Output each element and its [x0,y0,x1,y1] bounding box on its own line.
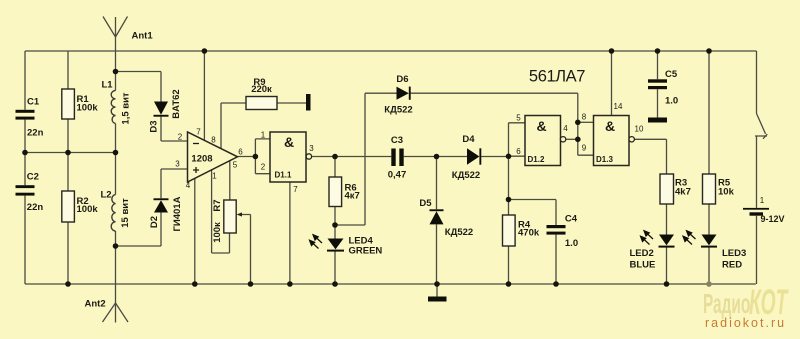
node bus pin4 [192,281,198,287]
node mid bus left [22,150,28,156]
svg-text:4: 4 [563,124,568,133]
wire op-amp pin 1 to R7 bottom [212,170,230,253]
wire node antenna to D3 [116,72,188,142]
svg-text:8: 8 [211,136,216,145]
antenna Ant1 [103,17,128,91]
svg-text:1208: 1208 [191,154,212,165]
ground stub [436,284,438,297]
node bus ground [434,281,440,287]
svg-text:4: 4 [186,181,191,190]
diode D6 КД522 [397,87,411,100]
svg-text:1.0: 1.0 [565,238,578,249]
wire R6 column [334,157,336,285]
wire C4 branch [509,200,557,285]
wire D5 column [436,157,438,285]
svg-text:D6: D6 [396,74,408,85]
wire op-amp pin 5 to R7 top [229,161,231,200]
LED4 arrows [310,235,323,249]
svg-text:LED2: LED2 [630,248,654,259]
svg-text:D3: D3 [149,120,160,132]
inductor L1 1,5 вит [111,91,115,124]
node bus D1.1 pin7 [287,281,293,287]
svg-text:Радио: Радио [703,288,750,319]
node C3 right [434,154,440,160]
node rail pin14 [609,48,615,54]
svg-text:100k: 100k [77,102,99,113]
touch plate E1 [306,94,311,111]
svg-text:470k: 470k [518,228,540,239]
node rail pin7 [202,48,208,54]
node D1.3 pin8 [575,120,581,126]
D1.2 output bubble [560,137,565,142]
svg-text:6: 6 [238,148,243,157]
svg-text:7: 7 [293,185,298,194]
capacitor C3 [391,149,403,167]
node bus LED2 [664,281,670,287]
wire D1.3 pin 8 [578,121,594,123]
svg-text:14: 14 [614,102,623,111]
node bus R2 [65,281,71,287]
resistor R6 [329,177,342,207]
wire D1.3 pin 9 [578,139,594,155]
svg-text:8: 8 [582,113,587,122]
resistor R2 [62,191,75,222]
op-amp plus sign [193,167,199,173]
svg-text:ГИ401А: ГИ401А [172,196,183,231]
svg-text:D5: D5 [419,198,432,209]
svg-text:9: 9 [582,144,587,153]
node LED4 anode [332,222,338,228]
wire R2 column [67,153,69,285]
svg-text:LED3: LED3 [722,248,746,259]
wire D1.2 output [566,138,578,140]
svg-text:1,5 вит: 1,5 вит [121,92,132,125]
wire L1-L2 column [115,124,117,323]
node D1.1 input [253,154,259,160]
NAND gate D1.2 [525,116,561,166]
resistor R1 [62,89,75,119]
wire LED4 node to D6 [335,93,397,225]
wire D6 cathode to gates [411,93,578,139]
svg-text:&: & [536,118,546,134]
wire op-amp pin 8 to R9 [221,103,246,149]
ground [428,297,447,302]
svg-text:3: 3 [309,144,314,153]
ground bar under C5 [648,118,667,123]
svg-text:2: 2 [178,133,183,142]
potentiometer R7 wiper arrow [237,212,243,216]
wire D1.1 pin 7 to bus [289,182,291,284]
svg-text:0,47: 0,47 [388,170,407,181]
svg-text:D2: D2 [149,216,160,228]
battery GB1 short plate [750,212,764,215]
svg-text:10k: 10k [718,186,735,197]
svg-text:561ЛА7: 561ЛА7 [529,68,585,86]
svg-text:2: 2 [261,163,266,172]
svg-text:C5: C5 [665,69,678,80]
svg-text:1.0: 1.0 [665,96,678,107]
node bus R7 [248,281,254,287]
svg-text:5: 5 [233,161,238,170]
svg-text:6: 6 [516,147,521,156]
svg-text:9-12V: 9-12V [761,214,785,224]
node bus LED4 [332,281,338,287]
svg-text:5: 5 [516,114,521,123]
svg-text:1: 1 [212,172,217,181]
antenna Ant2 [103,303,129,322]
wire D1.3 output to R3 [634,139,666,174]
D1.3 output bubble [629,137,634,142]
wire bottom bus [25,283,756,285]
node L2 bottom [113,243,119,249]
node D4 cathode [506,154,512,160]
svg-text:L2: L2 [101,190,112,201]
svg-text:Ant1: Ant1 [132,31,154,42]
wire left edge [24,51,26,284]
svg-text:КД522: КД522 [452,170,480,181]
svg-text:&: & [605,118,615,134]
wire node to D1.2 pin6 [509,155,526,157]
diode D2 ГИ401А [154,198,169,212]
wire C3 to D4 [404,156,467,158]
svg-text:&: & [284,134,294,150]
svg-text:D4: D4 [462,134,475,145]
NAND gate D1.3 [594,116,630,166]
op-amp U1 1208 [188,132,238,182]
LED3 RED [701,235,717,248]
node C3 left [332,154,338,160]
node L1 top [113,69,119,75]
svg-text:RED: RED [722,260,742,271]
svg-text:10: 10 [635,125,644,134]
resistor R9 [246,97,277,110]
wire right edge and battery column [756,51,758,284]
svg-text:D1.3: D1.3 [596,155,613,164]
capacitor C4 [547,225,566,235]
svg-text:4k7: 4k7 [675,186,691,197]
svg-text:3: 3 [175,160,180,169]
svg-text:Ant2: Ant2 [85,299,106,310]
capacitor C2 [16,185,35,195]
wire R4 pins column [508,123,510,284]
svg-text:C4: C4 [565,214,578,225]
svg-text:BAT62: BAT62 [171,89,182,118]
svg-text:radiokot.ru: radiokot.ru [705,316,786,330]
svg-text:1: 1 [261,130,266,139]
node R4 C4 [506,197,512,203]
LED4 GREEN [327,239,344,252]
svg-text:D1.1: D1.1 [275,171,292,180]
LED2 BLUE [659,235,675,248]
svg-text:4к7: 4к7 [345,191,360,202]
svg-text:C1: C1 [27,97,40,108]
wire R5 column [708,51,710,284]
svg-text:22n: 22n [27,128,44,139]
node bus R4 [506,281,512,287]
svg-text:R7: R7 [212,199,223,211]
svg-text:C3: C3 [391,135,403,146]
wire op-amp output to D1.1 inputs [238,139,271,174]
svg-text:15 вит: 15 вит [120,198,131,228]
svg-text:22n: 22n [27,202,44,213]
resistor R3 [660,174,674,204]
wire D1.1 output to C3 [312,156,392,158]
svg-text:КД522: КД522 [384,105,412,116]
diode D4 КД522 [467,148,481,164]
wire D1.3 pin 14 [611,51,613,116]
NAND gate D1.1 [270,132,306,182]
diode D5 КД522 [430,209,444,224]
wire R3 to LED2 to bus [666,204,668,284]
svg-text:L1: L1 [102,80,114,91]
resistor R5 [703,174,716,204]
watermark [703,282,789,330]
wire D4 to node [481,156,508,158]
battery GB1 long plate [743,208,769,210]
inductor L2 15 вит [111,195,115,232]
svg-text:100k: 100k [77,204,99,215]
svg-text:C2: C2 [27,172,39,183]
svg-text:100к: 100к [212,222,223,243]
LED3 arrows [683,231,696,245]
node bus LED3 [706,281,712,287]
wire op-amp pin 4 [194,178,196,284]
wire mid bus [25,152,116,154]
svg-text:1: 1 [760,196,765,205]
wire R9 to plate [277,102,306,104]
resistor R4 [503,215,516,246]
wire D2 to op-amp pin3 [116,169,188,246]
wire D1.2 pin5 [509,122,526,124]
svg-text:D1.2: D1.2 [528,155,545,164]
op-amp minus sign [193,143,199,145]
D1.1 output bubble [306,154,311,159]
node R1 bottom [65,150,71,156]
node bus C4 [553,281,559,287]
wire op-amp pin 7 [203,51,205,141]
svg-text:7: 7 [196,128,201,137]
wire C5 column [657,51,659,118]
svg-text:GREEN: GREEN [349,246,383,257]
node L1 bottom [113,150,119,156]
capacitor C5 [648,79,667,89]
wire R7 wiper to bus [239,215,251,285]
wire top rail [25,50,757,52]
switch SA1 [755,114,767,139]
node D1.2 output [575,137,581,143]
node rail R5 [706,48,712,54]
wire R1 column [67,51,69,153]
svg-text:220к: 220к [251,84,272,95]
diode D3 BAT62 [154,102,169,117]
svg-text:BLUE: BLUE [630,260,656,271]
svg-text:КД522: КД522 [445,227,473,238]
capacitor C1 [16,110,35,120]
potentiometer R7 [224,200,236,233]
node rail C5 [655,48,661,54]
LED2 arrows [641,231,654,245]
